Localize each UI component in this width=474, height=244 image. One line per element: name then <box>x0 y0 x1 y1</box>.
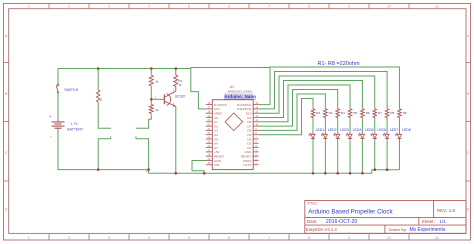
svg-text:6: 6 <box>228 236 230 240</box>
svg-text:1k: 1k <box>155 79 159 83</box>
svg-text:2: 2 <box>68 5 70 9</box>
svg-text:D: D <box>467 207 470 211</box>
svg-text:U1: U1 <box>230 85 234 89</box>
svg-text:Date:: Date: <box>307 219 318 224</box>
svg-text:3: 3 <box>108 5 110 9</box>
svg-text:R6: R6 <box>366 111 370 115</box>
svg-text:Arduino_Nano: Arduino_Nano <box>224 94 256 99</box>
svg-text:REV:: REV: <box>437 208 447 213</box>
svg-text:VIN: VIN <box>214 163 219 167</box>
svg-text:C: C <box>5 151 8 155</box>
svg-text:BC337: BC337 <box>175 94 185 98</box>
svg-text:LED5: LED5 <box>365 128 374 132</box>
svg-text:1: 1 <box>28 5 30 9</box>
svg-text:R9: R9 <box>403 111 407 115</box>
svg-text:8: 8 <box>308 5 310 9</box>
svg-text:R7: R7 <box>378 111 382 115</box>
svg-text:2016-OCT-20: 2016-OCT-20 <box>326 219 358 225</box>
svg-text:Drawn By:: Drawn By: <box>389 227 407 232</box>
svg-text:A: A <box>467 34 470 38</box>
svg-text:C: C <box>467 151 470 155</box>
svg-text:BATTERY: BATTERY <box>67 127 83 131</box>
svg-text:LED1: LED1 <box>316 128 325 132</box>
svg-text:LED2: LED2 <box>328 128 337 132</box>
svg-text:R4: R4 <box>341 111 345 115</box>
svg-text:4: 4 <box>148 5 150 9</box>
svg-text:10: 10 <box>387 5 391 9</box>
svg-text:EasyEDA V4.1.3: EasyEDA V4.1.3 <box>306 227 338 232</box>
svg-text:5: 5 <box>188 236 190 240</box>
svg-text:Ms Experiments: Ms Experiments <box>410 227 446 233</box>
svg-text:Sheet:: Sheet: <box>422 219 435 224</box>
svg-text:TITLE:: TITLE: <box>307 202 318 206</box>
svg-text:LED6: LED6 <box>377 128 386 132</box>
svg-text:R3: R3 <box>329 111 333 115</box>
svg-text:LED4: LED4 <box>353 128 362 132</box>
svg-text:LED3: LED3 <box>340 128 349 132</box>
svg-text:+: + <box>49 114 52 119</box>
svg-text:R8: R8 <box>390 111 394 115</box>
svg-text:D: D <box>5 207 8 211</box>
svg-text:R5: R5 <box>353 111 357 115</box>
svg-text:1.0: 1.0 <box>449 208 456 213</box>
svg-text:2k: 2k <box>155 108 159 112</box>
svg-text:5: 5 <box>188 5 190 9</box>
svg-text:3: 3 <box>108 236 110 240</box>
svg-text:Arduino Based Propeller Clock: Arduino Based Propeller Clock <box>308 209 393 216</box>
svg-text:9: 9 <box>348 5 350 9</box>
svg-text:11: 11 <box>435 5 439 9</box>
svg-text:8: 8 <box>308 236 310 240</box>
svg-text:10: 10 <box>387 236 391 240</box>
svg-text:9: 9 <box>348 236 350 240</box>
svg-text:6: 6 <box>228 5 230 9</box>
svg-text:1/1: 1/1 <box>440 219 447 224</box>
svg-text:D1TX: D1TX <box>243 163 251 167</box>
svg-text:1.7V: 1.7V <box>71 122 79 126</box>
svg-text:1: 1 <box>28 236 30 240</box>
svg-text:7: 7 <box>268 236 270 240</box>
svg-text:SWITCH: SWITCH <box>64 88 78 92</box>
svg-text:B: B <box>467 92 470 96</box>
svg-text:7: 7 <box>268 5 270 9</box>
svg-text:R2: R2 <box>316 111 320 115</box>
svg-text:LED8: LED8 <box>402 128 411 132</box>
svg-text:11: 11 <box>435 236 439 240</box>
svg-text:LED7: LED7 <box>390 128 399 132</box>
svg-text:4: 4 <box>148 236 150 240</box>
svg-text:1k: 1k <box>178 83 182 87</box>
svg-text:2: 2 <box>68 236 70 240</box>
svg-text:R1- R8 =220ohm: R1- R8 =220ohm <box>318 61 360 67</box>
